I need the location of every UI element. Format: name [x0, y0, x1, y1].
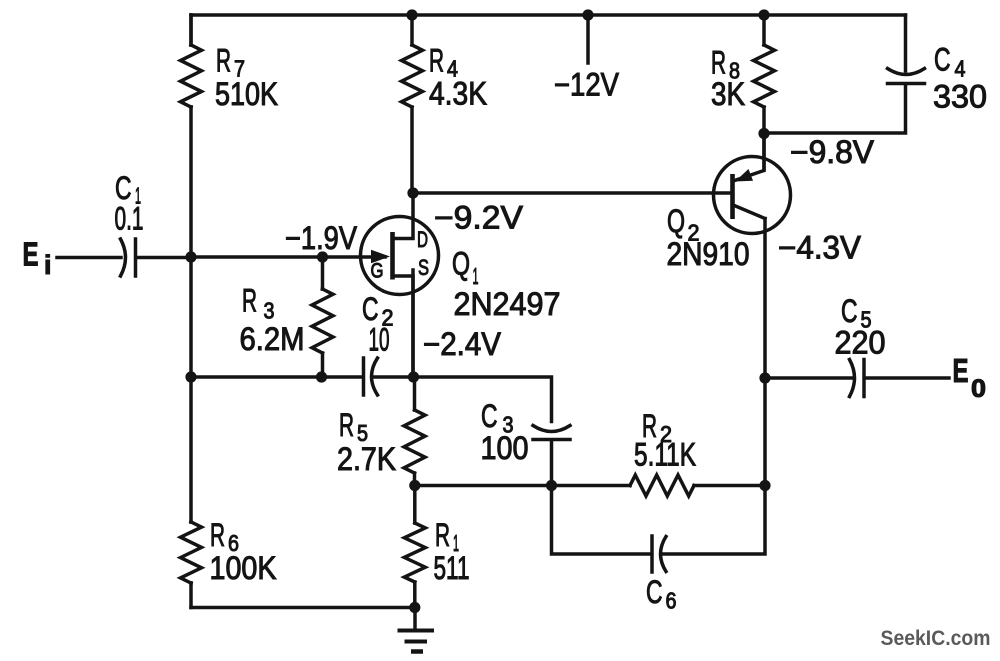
svg-text:D: D — [417, 227, 428, 252]
svg-text:3K: 3K — [711, 76, 745, 112]
svg-text:R: R — [435, 517, 450, 553]
node input junction — [185, 251, 196, 262]
capacitor C3 — [533, 426, 570, 440]
wire C6 loop left side — [552, 486, 651, 555]
node drain/base junction — [407, 187, 418, 198]
svg-text:100: 100 — [481, 430, 529, 466]
wire R2 right to output column — [694, 484, 765, 488]
wire Q2 collector to output node to R2 node — [763, 219, 767, 486]
wire feedback row y=377 (left node to C2) — [191, 375, 362, 379]
svg-text:E: E — [953, 352, 969, 389]
svg-text:−9.8V: −9.8V — [790, 134, 875, 170]
wire row y=485.5 (R5 bottom to R2 and C3 node) — [415, 484, 630, 488]
svg-text:4.3K: 4.3K — [429, 76, 487, 112]
wire gate lead (input node to Q1 gate) — [191, 255, 385, 259]
resistor R2 — [630, 475, 694, 496]
node gate/R3 junction — [317, 251, 328, 262]
svg-text:S: S — [418, 255, 429, 280]
capacitor C1 — [121, 239, 136, 276]
svg-text:E: E — [23, 236, 39, 273]
wire drain node to Q2 base — [413, 191, 733, 195]
node R5/R1 junction — [409, 480, 420, 491]
svg-text:511: 511 — [434, 550, 470, 586]
svg-text:R: R — [429, 43, 444, 79]
wire R3 top lead — [321, 257, 325, 289]
svg-text:C: C — [934, 42, 951, 78]
svg-text:10: 10 — [369, 322, 390, 358]
svg-text:−4.3V: −4.3V — [778, 230, 862, 266]
wire C1 to input node — [137, 256, 191, 260]
wire C4 top lead — [904, 15, 908, 71]
svg-text:2N2497: 2N2497 — [454, 286, 561, 322]
svg-text:C: C — [481, 398, 498, 434]
ground — [398, 608, 435, 652]
wire left bus (R7 to R6) — [189, 15, 193, 608]
svg-text:220: 220 — [835, 325, 886, 361]
capacitor C2 — [364, 358, 378, 395]
resistor R6 — [181, 522, 202, 583]
svg-text:G: G — [371, 259, 384, 283]
wire Q2 emitter lead from -9.8V node — [762, 133, 766, 170]
resistor R4 — [402, 15, 423, 193]
svg-text:0.1: 0.1 — [115, 201, 144, 237]
transistor Q2 2N910 — [714, 134, 791, 234]
svg-text:100K: 100K — [210, 550, 277, 586]
svg-text:2.7K: 2.7K — [337, 441, 396, 477]
node -12V junction — [582, 9, 593, 20]
node output junction — [759, 372, 770, 383]
wire Q1 source to -2.4V node — [411, 270, 415, 377]
svg-text:330: 330 — [933, 79, 987, 115]
wire C2 to -2.4V node, node to C3 corner — [374, 377, 552, 422]
svg-text:−12V: −12V — [554, 67, 620, 103]
svg-text:i: i — [44, 250, 52, 280]
svg-text:3: 3 — [264, 298, 275, 324]
svg-text:Q: Q — [667, 203, 685, 239]
wire C5 to Eo terminal — [866, 376, 949, 380]
resistor R3 — [312, 289, 333, 377]
svg-text:R: R — [242, 283, 257, 319]
resistor R5 — [404, 377, 425, 486]
svg-text:5.11K: 5.11K — [634, 437, 696, 473]
resistor R1 — [404, 486, 425, 608]
svg-text:R: R — [216, 43, 231, 79]
node C3 bottom junction — [546, 480, 557, 491]
resistor R7 — [181, 15, 202, 107]
wire C3 bottom lead — [550, 441, 554, 486]
resistor R8 — [754, 15, 775, 133]
svg-text:0: 0 — [971, 375, 986, 403]
capacitor C5 — [850, 360, 865, 397]
svg-text:−9.2V: −9.2V — [434, 200, 524, 236]
svg-text:−1.9V: −1.9V — [285, 220, 358, 256]
node R4 top junction — [406, 9, 417, 20]
svg-text:−2.4V: −2.4V — [423, 326, 502, 362]
node R3 bottom junction — [316, 371, 327, 382]
svg-text:2N910: 2N910 — [667, 236, 750, 272]
svg-text:6.2M: 6.2M — [240, 321, 305, 357]
transistor Q1 2N2497 FET — [361, 193, 439, 377]
wire bottom return (R6 bottom to ground node) — [191, 606, 415, 610]
wire Ei input lead — [57, 256, 121, 260]
svg-text:R: R — [210, 517, 225, 553]
node -9.8V junction — [758, 128, 769, 139]
node left bus feedback junction — [185, 371, 196, 382]
wire top supply rail — [191, 13, 906, 17]
node R2 right junction — [759, 480, 770, 491]
capacitor C4 — [888, 69, 925, 84]
node R8 top junction — [758, 9, 769, 20]
node -2.4V junction — [408, 371, 419, 382]
wire C4 bottom lead to -9.8V node — [764, 85, 906, 133]
svg-text:C: C — [646, 574, 663, 610]
wire output node to C5 — [765, 376, 852, 380]
wire -12V stub — [586, 15, 590, 63]
svg-text:R: R — [339, 407, 354, 443]
node ground junction — [409, 602, 420, 613]
svg-text:6: 6 — [666, 588, 677, 614]
svg-text:Q: Q — [452, 246, 470, 282]
wire C6 loop right side — [663, 486, 765, 555]
svg-text:SeekIC.com: SeekIC.com — [881, 626, 991, 650]
capacitor C6 — [652, 536, 666, 572]
svg-text:510K: 510K — [215, 76, 278, 112]
